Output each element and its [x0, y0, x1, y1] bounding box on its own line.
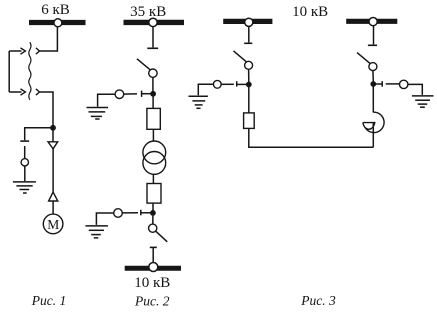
left earthing switch: stub from junction to fixed contact [237, 83, 249, 85]
ground symbol left (figure 3) [189, 96, 208, 108]
wire right junction down to arrester [372, 84, 374, 112]
right earthing switch: hinge circle [400, 80, 408, 88]
fixed contact tick of right disconnector [368, 44, 377, 46]
wire tie run up to arrester [372, 131, 374, 147]
hinge circle of upper disconnector [149, 69, 157, 77]
hinge circle of right disconnector [369, 63, 377, 71]
bus connection node on 10 kV busbar [149, 263, 158, 272]
upper fixed plug contact (chevron) [36, 48, 40, 54]
junction node upper [150, 91, 156, 97]
fixed contact tick of left disconnector [244, 42, 252, 44]
instrument / arrester circle [21, 159, 28, 166]
wire fuse down to tie run [249, 128, 373, 147]
left junction node [246, 82, 252, 88]
open contact bar of branch switch [20, 140, 29, 142]
fixed contact tick of lower disconnector [150, 246, 157, 248]
wire between contact gap and instrument circle [24, 146, 26, 159]
wire from right earthing switch to ground [408, 84, 422, 95]
transformer T (two windings) [143, 141, 166, 164]
blade of right disconnector (open) [357, 53, 371, 64]
fuse F1 (rectangle) [147, 108, 160, 129]
withdrawable-unit boundary (vertical squiggle) [29, 42, 31, 100]
wire from fixed contact to 10 kV bus node [152, 247, 154, 262]
svg-text:Рис. 1: Рис. 1 [31, 293, 67, 308]
lower fixed plug contact (chevron) [36, 89, 40, 95]
wire left bus node down to fixed contact [248, 26, 250, 42]
ground symbol lower (figure 2) [85, 226, 108, 238]
wire from bus node to fixed contact [152, 27, 154, 48]
bus node on right busbar [369, 18, 377, 26]
wire junction to upper cable termination [52, 128, 54, 142]
arrester loop (circle arc) [365, 112, 384, 132]
cable run wire [52, 149, 54, 192]
wire from junction to voltage-transformer branch [25, 128, 53, 140]
upper earthing switch: stub from junction to fixed contact [142, 93, 153, 95]
svg-text:М: М [47, 217, 59, 232]
bracket joining moving contacts [8, 51, 10, 92]
upper earthing switch: fixed contact tick [141, 91, 143, 97]
wire through arrester cup [372, 123, 374, 134]
svg-text:Рис. 3: Рис. 3 [300, 293, 336, 308]
svg-text:6 кВ: 6 кВ [41, 2, 70, 18]
blade of lower disconnector (open) [156, 231, 167, 242]
lower cable termination (triangle up) [49, 192, 58, 201]
wire junction to lower disconnector hinge [152, 216, 154, 225]
hinge circle of lower disconnector [149, 224, 157, 232]
right earthing switch: fixed contact tick [381, 81, 383, 87]
busbar 35 kV [124, 20, 185, 25]
wire fuse 2 to lower junction [152, 203, 154, 211]
svg-text:10 кВ: 10 кВ [292, 4, 328, 20]
svg-text:Рис. 2: Рис. 2 [134, 293, 170, 308]
right 10 kV busbar [346, 19, 397, 24]
wire right bus node down to fixed contact [373, 26, 375, 45]
bus node on left busbar [245, 18, 253, 26]
wire from 6 kV bus node down and left to upper plug contact [40, 27, 58, 51]
wire right hinge to right junction [372, 71, 374, 82]
left earthing switch: fixed contact tick [236, 81, 238, 86]
bus connection node on 35 kV busbar [149, 18, 157, 26]
junction node lower [150, 210, 156, 216]
right junction node [370, 81, 376, 87]
lower earthing switch: stub from junction to fixed contact [141, 212, 153, 214]
upper earthing switch: hinge circle [115, 90, 124, 99]
left 10 kV busbar [223, 19, 272, 24]
wire from circle to ground [24, 166, 26, 181]
ground symbol of figure 1 [13, 182, 36, 193]
wire hinge to left junction [248, 69, 250, 82]
lower earthing switch: open blade wire [122, 212, 138, 214]
busbar 6 kV [29, 20, 86, 25]
wire from hinge to junction [152, 77, 154, 91]
hinge circle of left disconnector [245, 61, 253, 69]
upper cable termination (triangle down) [48, 142, 58, 149]
right earthing switch: stub from junction to fixed contact [373, 83, 382, 85]
blade of upper disconnector (open) [137, 59, 152, 71]
lower earthing switch: fixed contact tick [140, 210, 142, 216]
wire fuse 1 to transformer [152, 129, 154, 141]
ground symbol upper (figure 2) [87, 108, 109, 120]
upper moving contact arrow [9, 50, 21, 52]
motor M [43, 214, 63, 234]
bus connection node (open circle) on 6 kV busbar [54, 19, 62, 27]
wire from earthing switch to ground [98, 94, 116, 106]
fuse F3 (rectangle) [244, 113, 255, 128]
wire from left earthing switch to ground [198, 84, 213, 95]
busbar 10 kV [125, 266, 181, 271]
upper earthing switch: open blade wire [124, 93, 137, 95]
wire from lower earthing switch to ground [96, 213, 113, 225]
fuse F2 (rectangle) [147, 184, 161, 204]
blade of left disconnector (open) [234, 51, 247, 62]
wire to motor [52, 201, 54, 214]
ground symbol right (figure 3) [412, 96, 434, 107]
svg-text:10 кВ: 10 кВ [134, 275, 170, 291]
right earthing switch: open blade wire [386, 83, 400, 85]
lower earthing switch: hinge circle [114, 209, 123, 218]
svg-text:35 кВ: 35 кВ [130, 4, 166, 20]
left earthing switch: hinge circle [213, 80, 221, 88]
arrester cup (half-disk) [363, 123, 375, 130]
wire from junction to fuse 1 [152, 94, 154, 109]
wire from lower plug contact to junction [40, 92, 53, 126]
junction node (solid dot) [50, 125, 56, 131]
wire transformer to fuse 2 [152, 174, 154, 183]
left earthing switch: open blade wire [221, 83, 234, 85]
fixed contact tick of upper disconnector [147, 47, 158, 49]
lower moving contact arrow [9, 91, 21, 93]
wire left junction to fuse [248, 85, 250, 113]
